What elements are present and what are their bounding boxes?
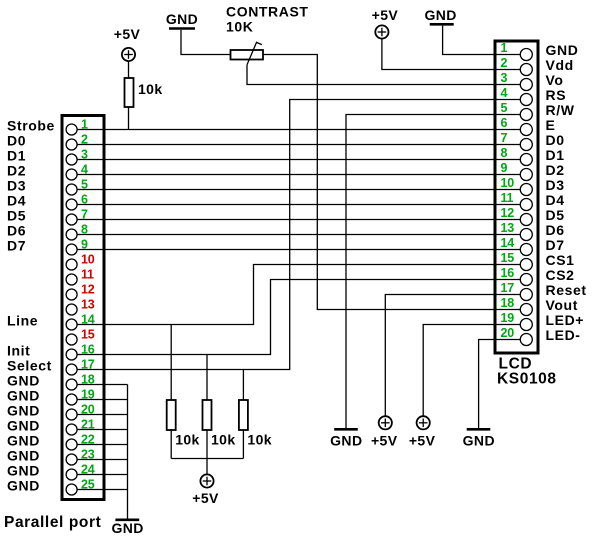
label D7 (J1 pin 9) [7, 238, 26, 254]
resistor R4 10k [239, 400, 248, 430]
pin 8 of J1 [66, 223, 88, 241]
svg-text:16: 16 [501, 266, 515, 280]
label D3 (LCD pin 10) [546, 177, 565, 193]
pin 21 of J1 [66, 418, 95, 436]
pin 3 of LCD [501, 71, 533, 91]
svg-text:15: 15 [81, 328, 95, 342]
svg-text:GND: GND [111, 520, 143, 536]
svg-text:D3: D3 [546, 177, 565, 193]
pin 17 of LCD [501, 281, 533, 301]
label D6 (LCD pin 13) [546, 222, 565, 238]
label CS2 (LCD pin 16) [546, 267, 575, 283]
svg-text:D1: D1 [546, 147, 565, 163]
svg-text:Reset: Reset [546, 282, 587, 298]
svg-text:D5: D5 [546, 207, 565, 223]
pin 13 of J1 [66, 298, 95, 316]
ground (bottom, R/W) [330, 429, 362, 448]
svg-text:10k: 10k [247, 432, 272, 448]
label 10k (R4) [247, 432, 272, 448]
pin 5 of J1 [66, 178, 88, 196]
svg-text:GND: GND [7, 448, 40, 464]
wire net R/W: LCD pin5 to ground [346, 115, 520, 429]
wire net Reset: LCD pin17 to +5V [385, 295, 520, 417]
wire net D0: J1 pin2 to LCD pin7 [77, 144, 520, 146]
label D2 (J1 pin 4) [7, 163, 26, 179]
svg-text:7: 7 [501, 131, 508, 145]
svg-text:Strobe: Strobe [7, 118, 55, 134]
wire J1 pin20 to GND bus [77, 414, 127, 416]
ground (top right) [424, 7, 456, 24]
svg-text:D0: D0 [7, 133, 26, 149]
label GND (J1 pin 24) [7, 463, 40, 479]
pin 10 of J1 [66, 253, 95, 271]
label CONTRAST [226, 4, 309, 20]
pin 1 of LCD [501, 41, 533, 61]
pin 22 of J1 [66, 433, 95, 451]
svg-text:10k: 10k [211, 432, 236, 448]
pin 16 of LCD [501, 266, 533, 286]
ground (bottom left, parallel port) [111, 520, 143, 536]
wire R4 top to net row [242, 370, 244, 401]
svg-text:2: 2 [501, 56, 508, 70]
label Parallel port [4, 514, 101, 531]
wire J1 pin19 to GND bus [77, 399, 127, 401]
label D5 (LCD pin 12) [546, 207, 565, 223]
wire net LED+: LCD pin19 to +5V [423, 325, 520, 417]
label Vout (LCD pin 18) [546, 297, 578, 313]
svg-text:GND: GND [463, 433, 495, 449]
wire +5V to LCD pin2 Vdd [382, 38, 520, 69]
label Reset (LCD pin 17) [546, 282, 587, 298]
svg-text:D5: D5 [7, 208, 26, 224]
svg-text:10K: 10K [226, 19, 253, 35]
svg-text:1: 1 [501, 41, 508, 55]
label Init (J1 pin 16) [7, 343, 30, 359]
pin 4 of LCD [501, 86, 533, 106]
svg-text:+5V: +5V [371, 433, 398, 449]
wire J1 pin23 to GND bus [77, 459, 127, 461]
label Vo (LCD pin 3) [546, 72, 564, 88]
pin 9 of J1 [66, 238, 88, 256]
label D2 (LCD pin 9) [546, 162, 565, 178]
svg-text:11: 11 [81, 268, 94, 282]
label Line (J1 pin 14) [7, 313, 38, 329]
pin 8 of LCD [501, 146, 533, 166]
potentiometer R5 CONTRAST 10K body [231, 42, 264, 64]
svg-text:+5V: +5V [114, 26, 141, 42]
wire net RS: J1 pin17 Select to LCD pin4 RS [77, 100, 520, 370]
pin 6 of J1 [66, 193, 88, 211]
svg-text:Line: Line [7, 313, 38, 329]
label D1 (J1 pin 3) [7, 148, 26, 164]
svg-text:Parallel port: Parallel port [4, 514, 101, 531]
wire +5V to R1 [128, 61, 130, 78]
svg-text:12: 12 [501, 206, 515, 220]
label D5 (J1 pin 7) [7, 208, 26, 224]
pin 2 of LCD [501, 56, 533, 76]
pin 9 of LCD [501, 161, 533, 181]
svg-text:4: 4 [501, 86, 508, 100]
svg-text:CS1: CS1 [546, 252, 575, 268]
label 10k (R2) [175, 432, 200, 448]
svg-text:19: 19 [501, 311, 515, 325]
wire GND to pot left terminal [181, 30, 231, 55]
wire net D4: J1 pin6 to LCD pin11 [77, 204, 520, 206]
svg-text:GND: GND [7, 478, 40, 494]
pin 4 of J1 [66, 163, 88, 181]
svg-text:LED+: LED+ [546, 312, 585, 328]
svg-text:GND: GND [7, 418, 40, 434]
power +5V symbol (bottom, LED+) [409, 416, 436, 448]
label Vdd (LCD pin 2) [546, 57, 574, 73]
connector LCD KS0108 body [495, 41, 538, 353]
wire R3 bottom to +5V rail [206, 430, 208, 459]
ground (top left, pot) [166, 11, 198, 29]
svg-text:9: 9 [501, 161, 508, 175]
label GND (J1 pin 25) [7, 478, 40, 494]
svg-text:GND: GND [166, 11, 198, 27]
svg-text:KS0108: KS0108 [497, 371, 557, 388]
svg-text:D2: D2 [546, 162, 565, 178]
svg-text:D6: D6 [546, 222, 565, 238]
wire net LED-: LCD pin20 to ground [479, 340, 521, 429]
svg-text:GND: GND [7, 463, 40, 479]
svg-text:17: 17 [501, 281, 515, 295]
svg-text:Vo: Vo [546, 72, 564, 88]
svg-text:E: E [546, 117, 556, 133]
pin 16 of J1 [66, 343, 95, 361]
svg-text:10k: 10k [175, 432, 200, 448]
svg-text:13: 13 [81, 298, 95, 312]
wire J1 pin24 to GND bus [77, 474, 127, 476]
pin 15 of LCD [501, 251, 533, 271]
pin 12 of J1 [66, 283, 95, 301]
pin 6 of LCD [501, 116, 533, 136]
label D1 (LCD pin 8) [546, 147, 565, 163]
label R/W (LCD pin 5) [546, 102, 575, 118]
wire net D3: J1 pin5 to LCD pin10 [77, 189, 520, 191]
svg-text:11: 11 [501, 191, 514, 205]
label Select (J1 pin 17) [7, 358, 52, 374]
wire GND bus vertical [127, 385, 129, 520]
svg-text:Vdd: Vdd [546, 57, 574, 73]
svg-text:D7: D7 [7, 238, 26, 254]
pin 23 of J1 [66, 448, 95, 466]
pin 11 of J1 [66, 268, 94, 286]
pin 1 of J1 [66, 118, 88, 136]
label D6 (J1 pin 8) [7, 223, 26, 239]
wire J1 pin21 to GND bus [77, 429, 127, 431]
wire R1 to Strobe net [128, 107, 130, 130]
wire net CS1: J1 pin14 Line to LCD pin15 CS1 [77, 265, 520, 325]
pin 15 of J1 [66, 328, 95, 346]
pin 24 of J1 [66, 463, 95, 481]
resistor R2 10k [167, 400, 176, 430]
svg-text:GND: GND [546, 42, 579, 58]
label GND (J1 pin 19) [7, 388, 40, 404]
wire +5V rail joining R2 R3 R4 [171, 459, 243, 475]
pin 10 of LCD [501, 176, 533, 196]
pin 3 of J1 [66, 148, 88, 166]
svg-text:14: 14 [501, 236, 515, 250]
power +5V symbol (bottom, pullups) [192, 474, 219, 506]
label LED- (LCD pin 20) [546, 327, 581, 343]
label D4 (LCD pin 11) [546, 192, 565, 208]
pin 17 of J1 [66, 358, 95, 376]
wire J1 pin18 to GND bus [77, 384, 127, 386]
wire R2 top to net row [170, 325, 172, 401]
pin 14 of LCD [501, 236, 533, 256]
pin 19 of J1 [66, 388, 95, 406]
power +5V symbol (top left) [114, 26, 141, 61]
svg-text:+5V: +5V [192, 490, 219, 506]
label D7 (LCD pin 14) [546, 237, 565, 253]
wire net E: J1 pin1 Strobe to LCD pin6 E [77, 129, 520, 131]
label 10k (R3) [211, 432, 236, 448]
svg-text:GND: GND [7, 388, 40, 404]
wire net D6: J1 pin8 to LCD pin13 [77, 234, 520, 236]
label GND (J1 pin 22) [7, 433, 40, 449]
pin 20 of LCD [501, 326, 533, 346]
svg-text:GND: GND [7, 403, 40, 419]
svg-text:D3: D3 [7, 178, 26, 194]
label D0 (LCD pin 7) [546, 132, 565, 148]
wire J1 pin25 to GND bus [77, 489, 127, 491]
label LCD [499, 356, 533, 373]
pin 18 of LCD [501, 296, 533, 316]
resistor R1 10k [125, 78, 134, 107]
svg-text:D7: D7 [546, 237, 565, 253]
svg-text:CONTRAST: CONTRAST [226, 4, 309, 20]
pin 19 of LCD [501, 311, 533, 331]
wire R2 bottom to +5V rail [170, 430, 172, 459]
power +5V symbol (top, Vdd) [372, 7, 399, 39]
svg-text:20: 20 [501, 326, 515, 340]
svg-text:R/W: R/W [546, 102, 575, 118]
wire net CS2: J1 pin16 Init to LCD pin16 CS2 [77, 280, 520, 355]
label KS0108 [497, 371, 557, 388]
svg-text:GND: GND [330, 433, 362, 449]
svg-text:10k: 10k [138, 81, 163, 97]
svg-text:GND: GND [424, 7, 456, 23]
label GND (J1 pin 18) [7, 373, 40, 389]
wire net D1: J1 pin3 to LCD pin8 [77, 159, 520, 161]
svg-text:D1: D1 [7, 148, 26, 164]
svg-text:10: 10 [81, 253, 95, 267]
label D0 (J1 pin 2) [7, 133, 26, 149]
svg-text:+5V: +5V [409, 433, 436, 449]
svg-text:Vout: Vout [546, 297, 578, 313]
svg-text:Init: Init [7, 343, 30, 359]
label D4 (J1 pin 6) [7, 193, 26, 209]
label GND (LCD pin 1) [546, 42, 579, 58]
label GND (J1 pin 23) [7, 448, 40, 464]
svg-text:RS: RS [546, 87, 567, 103]
wire net D7: J1 pin9 to LCD pin14 [77, 249, 520, 251]
pin 18 of J1 [66, 373, 95, 391]
wire net D2: J1 pin4 to LCD pin9 [77, 174, 520, 176]
svg-text:3: 3 [501, 71, 508, 85]
wire J1 pin22 to GND bus [77, 444, 127, 446]
wire R3 top to net row [206, 355, 208, 401]
wire GND to LCD pin1 GND [443, 26, 521, 55]
svg-text:D2: D2 [7, 163, 26, 179]
svg-text:GND: GND [7, 373, 40, 389]
svg-text:CS2: CS2 [546, 267, 575, 283]
svg-text:D4: D4 [546, 192, 565, 208]
pin 2 of J1 [66, 133, 88, 151]
label GND (J1 pin 20) [7, 403, 40, 419]
resistor R3 10k [203, 400, 212, 430]
pin 11 of LCD [501, 191, 533, 211]
svg-text:6: 6 [501, 116, 508, 130]
svg-text:10: 10 [501, 176, 515, 190]
label 10K (pot value) [226, 19, 253, 35]
svg-text:D6: D6 [7, 223, 26, 239]
svg-text:8: 8 [501, 146, 508, 160]
svg-text:18: 18 [501, 296, 515, 310]
pin 5 of LCD [501, 101, 533, 121]
label LED+ (LCD pin 19) [546, 312, 585, 328]
wire pot wiper to LCD pin3 Vo [247, 65, 520, 85]
pin 14 of J1 [66, 313, 95, 331]
label E (LCD pin 6) [546, 117, 556, 133]
svg-text:LED-: LED- [546, 327, 581, 343]
svg-text:D0: D0 [546, 132, 565, 148]
label Strobe (J1 pin 1) [7, 118, 55, 134]
connector J1 parallel port body [62, 116, 104, 500]
label RS (LCD pin 4) [546, 87, 567, 103]
wire net Vout: pot right terminal to LCD pin18 Vout [263, 55, 520, 310]
power +5V symbol (bottom, Reset) [371, 416, 398, 448]
pin 25 of J1 [66, 478, 95, 496]
label CS1 (LCD pin 15) [546, 252, 575, 268]
label 10k (R1) [138, 81, 163, 97]
label GND (J1 pin 21) [7, 418, 40, 434]
wire R4 bottom to +5V rail [242, 430, 244, 459]
svg-text:Select: Select [7, 358, 52, 374]
svg-text:13: 13 [501, 221, 515, 235]
pin 7 of J1 [66, 208, 88, 226]
svg-text:GND: GND [7, 433, 40, 449]
pin 7 of LCD [501, 131, 533, 151]
pin 12 of LCD [501, 206, 533, 226]
pin 13 of LCD [501, 221, 533, 241]
svg-text:D4: D4 [7, 193, 26, 209]
svg-text:+5V: +5V [372, 7, 399, 23]
wire net D5: J1 pin7 to LCD pin12 [77, 219, 520, 221]
svg-text:5: 5 [501, 101, 508, 115]
svg-text:12: 12 [81, 283, 95, 297]
ground (bottom, LED-) [463, 429, 495, 448]
svg-text:15: 15 [501, 251, 515, 265]
label D3 (J1 pin 5) [7, 178, 26, 194]
pin 20 of J1 [66, 403, 95, 421]
